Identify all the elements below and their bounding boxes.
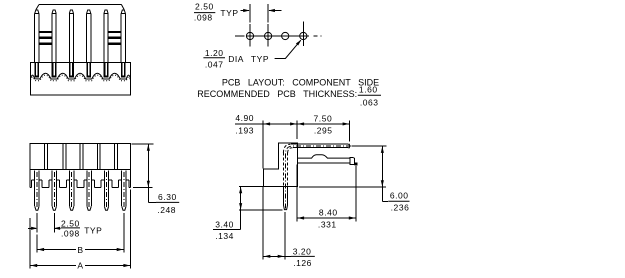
- svg-text:6.00: 6.00: [390, 191, 409, 201]
- svg-text:.331: .331: [318, 219, 337, 229]
- svg-text:4.90: 4.90: [235, 113, 254, 123]
- svg-text:.126: .126: [293, 258, 312, 268]
- svg-text:6.30: 6.30: [158, 192, 177, 202]
- svg-text:PCB LAYOUT: COMPONENT SIDE: PCB LAYOUT: COMPONENT SIDE: [222, 77, 379, 87]
- svg-text:1.20: 1.20: [205, 48, 224, 58]
- svg-text:8.40: 8.40: [319, 207, 338, 217]
- svg-text:.063: .063: [360, 97, 379, 107]
- svg-text:.098: .098: [61, 228, 80, 238]
- svg-text:RECOMMENDED PCB THICKNESS:: RECOMMENDED PCB THICKNESS:: [197, 89, 357, 99]
- svg-text:.248: .248: [157, 205, 176, 215]
- svg-text:.098: .098: [194, 12, 213, 22]
- svg-text:.134: .134: [215, 231, 234, 241]
- svg-text:TYP: TYP: [84, 226, 102, 236]
- svg-text:.236: .236: [391, 203, 410, 213]
- svg-text:TYP: TYP: [220, 8, 238, 18]
- svg-text:B: B: [77, 245, 83, 255]
- svg-text:3.40: 3.40: [215, 219, 234, 229]
- svg-text:.295: .295: [314, 125, 333, 135]
- svg-text:A: A: [77, 260, 83, 270]
- svg-text:1.60: 1.60: [359, 85, 378, 95]
- svg-text:TYP: TYP: [251, 54, 269, 64]
- svg-text:DIA: DIA: [228, 54, 244, 64]
- svg-text:2.50: 2.50: [195, 1, 214, 11]
- svg-text:.047: .047: [205, 59, 224, 69]
- svg-text:7.50: 7.50: [314, 114, 333, 124]
- svg-text:2.50: 2.50: [61, 218, 80, 228]
- svg-text:3.20: 3.20: [293, 246, 312, 256]
- svg-text:.193: .193: [235, 126, 254, 136]
